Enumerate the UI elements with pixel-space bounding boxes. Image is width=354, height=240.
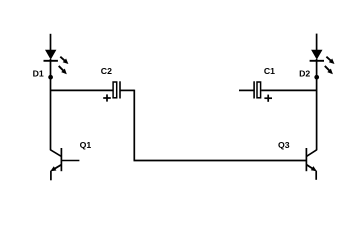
svg-text:Q1: Q1 (80, 140, 92, 150)
junction dot node D1 (48, 75, 53, 80)
wire D2 anode (top lead, x=316.6) (316, 34, 318, 51)
svg-text:C1: C1 (264, 66, 275, 76)
svg-text:D2: D2 (299, 68, 310, 78)
wire D1 anode (top lead, x=50.5) (50, 34, 52, 51)
capacitor C2 (103, 81, 120, 101)
svg-text:C2: C2 (101, 66, 112, 76)
LED D1 (44, 50, 69, 74)
wire C1 right plate to node D2 (261, 89, 316, 91)
svg-text:Q3: Q3 (278, 140, 290, 150)
wire vertical drop from C2 to bottom rail (133, 90, 135, 161)
transistor Q1 (50, 148, 79, 180)
capacitor C1 (254, 81, 272, 102)
junction dot node D2 (314, 75, 319, 80)
wire D2 cathode down to Q3 collector (316, 59, 318, 150)
wire C1 left stub (239, 89, 254, 91)
svg-text:D1: D1 (33, 68, 44, 78)
wire bottom rail to Q3 base (134, 160, 307, 162)
wire D1 cathode down to Q1 collector (50, 59, 52, 150)
transistor Q3 (306, 148, 317, 180)
wire C2 right plate to bend (120, 89, 134, 91)
LED D2 (310, 50, 335, 74)
wire node D1 to C2 left plate (51, 89, 114, 91)
